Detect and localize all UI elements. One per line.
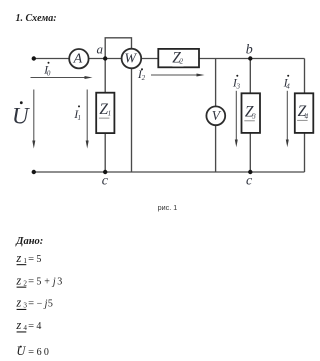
svg-text:U: U [12, 104, 30, 129]
svg-text:b: b [246, 43, 253, 58]
svg-text:A: A [73, 52, 83, 67]
svg-text:z4=4: z4=4 [15, 318, 41, 332]
svg-text:1. Схема:: 1. Схема: [16, 13, 57, 24]
svg-text:a: a [97, 41, 104, 56]
svg-text:c: c [102, 174, 109, 189]
svg-text:W: W [124, 52, 137, 67]
svg-text:c: c [246, 174, 253, 189]
svg-text:Дано:: Дано: [15, 236, 43, 247]
svg-text:z1=5: z1=5 [15, 251, 41, 265]
svg-text:рис. 1: рис. 1 [158, 203, 178, 212]
